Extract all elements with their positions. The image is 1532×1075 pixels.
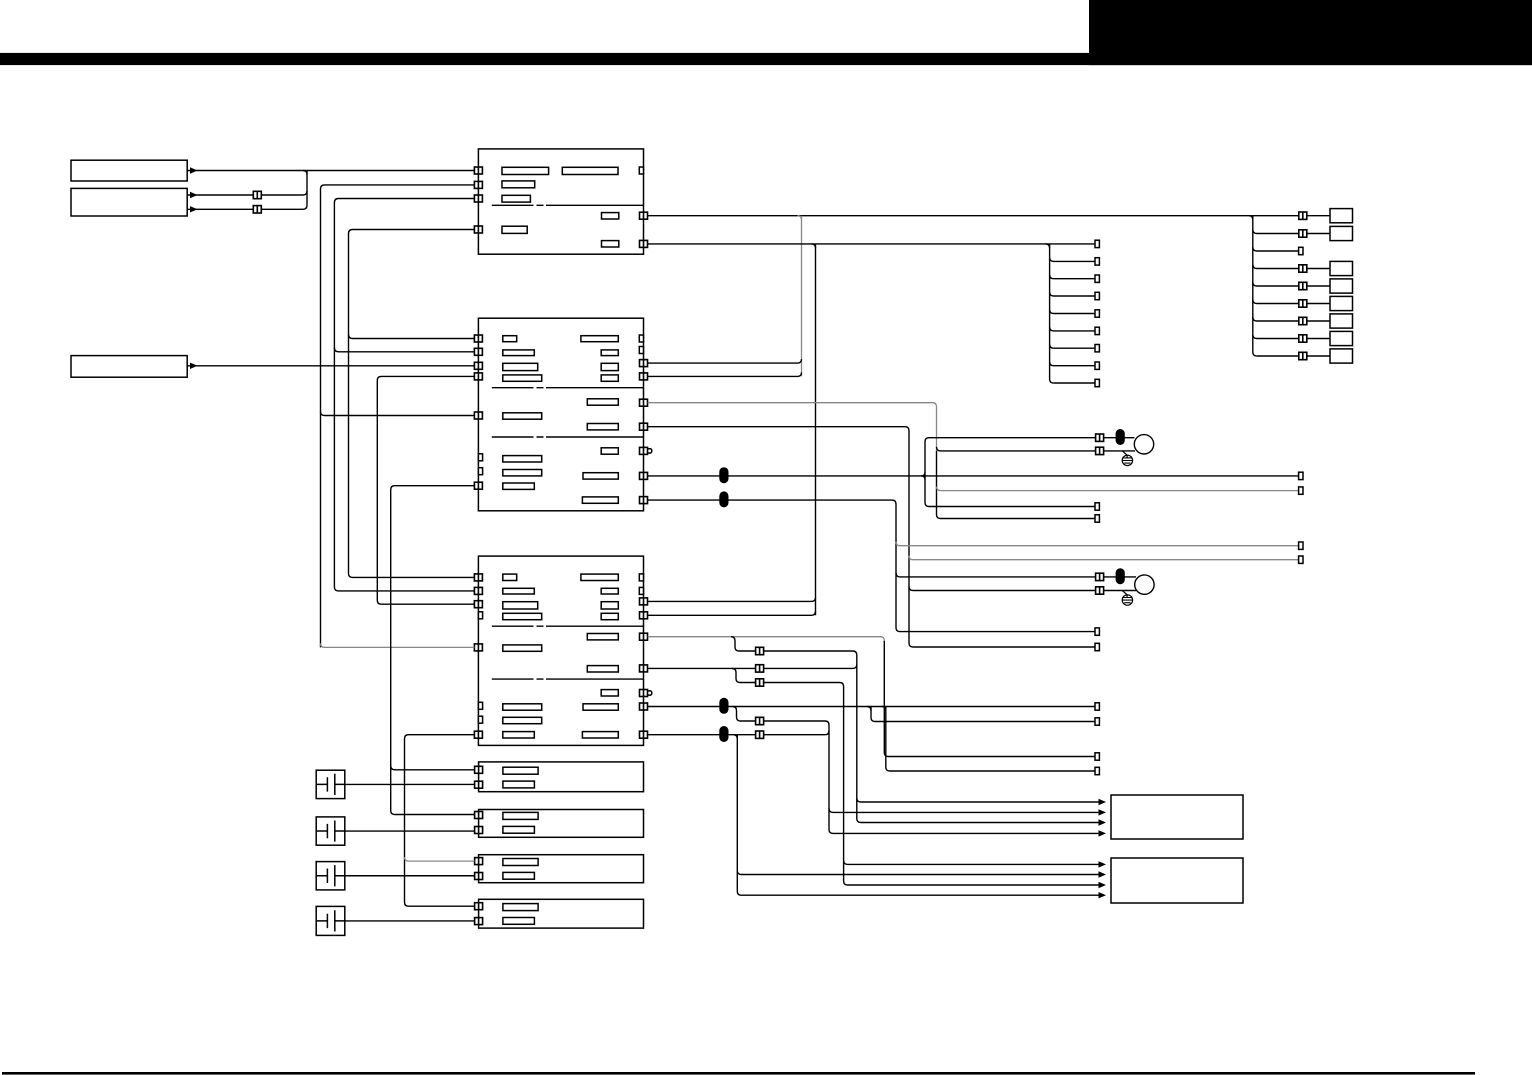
vertical y637 to square: [884, 641, 1095, 757]
block U3 left pin 1: [474, 574, 482, 581]
block U3 label rect i: [587, 634, 618, 640]
CN column branch 1: [1050, 257, 1095, 261]
fan branch 1 connector: [1299, 212, 1307, 219]
block U3 left pin 4: [474, 644, 482, 651]
jack J2 outline: [316, 817, 345, 845]
block U3 divider 2: [492, 678, 644, 680]
wire U2.6r long with bead: [648, 475, 1299, 477]
block U3 right pin 2: [640, 612, 648, 619]
arrow into box R2 line4: [1099, 892, 1107, 898]
bus vertical E (U2.6-M1-M2): [391, 486, 475, 815]
block U2 label rect d: [503, 375, 542, 381]
output box R2: [1111, 858, 1243, 903]
wire U2.4r down: [648, 427, 1095, 647]
box tuner/source 1: [71, 160, 187, 181]
arrow into box R1 line4: [1099, 830, 1107, 836]
module M1 label rect a: [503, 767, 538, 774]
module M3 outline: [479, 855, 644, 883]
wire U2 right pin2 merge: [648, 372, 802, 376]
connector on box2 upper wire: [253, 191, 261, 198]
module M3 pin 2: [475, 873, 483, 880]
terminal square CN row2: [1095, 275, 1099, 282]
fan branch 8 plug box: [1330, 331, 1353, 345]
block U3 label rect e: [581, 574, 618, 580]
block U3 right stub pin b: [639, 587, 643, 594]
wire U3 right pin1 merge: [648, 597, 816, 601]
arrow into box R1 line2: [1099, 809, 1107, 815]
block U3 label rect d: [503, 613, 542, 619]
terminal square CN row6: [1095, 345, 1099, 352]
terminal square y647: [1095, 643, 1099, 650]
block U2 right pin 6: [640, 472, 648, 479]
branch T x737 down: [737, 735, 1098, 896]
CN column branch 6: [1050, 344, 1095, 348]
wire box2 lower to node: [187, 205, 307, 209]
connector y682: [756, 679, 764, 686]
block U3 label rect o: [583, 704, 618, 710]
block U1 internal divider: [492, 204, 644, 206]
block U2 label rect n: [503, 470, 542, 476]
jack J3 outline: [316, 862, 345, 890]
fillet T x871: [867, 707, 871, 711]
block U2 right pin 5: [640, 447, 648, 454]
jack J1 outline: [316, 770, 345, 798]
speaker 2: [1135, 575, 1154, 594]
fan branch 5 plug box: [1330, 279, 1353, 293]
header black band: [0, 53, 1532, 65]
terminal square CN row0: [1095, 240, 1099, 247]
fan branch 4 connector: [1299, 265, 1307, 272]
block U2 label rect i: [587, 399, 618, 405]
block U1 right pin 6: [640, 240, 648, 247]
block U3 left stub pin b: [478, 702, 482, 709]
bus vertical C (U1.4-U2.1-U3.1): [349, 230, 475, 578]
bead on U3.6r: [719, 698, 728, 714]
module M2 pin 1: [475, 812, 483, 819]
block U2 right stub pin a: [639, 335, 643, 342]
fan branch 9 wire: [1257, 355, 1330, 357]
ground 1: [1122, 455, 1132, 465]
terminal square CN row1: [1095, 258, 1099, 265]
fan branch 9 connector: [1299, 352, 1307, 359]
branch to arrow y802: [857, 798, 1099, 802]
module M1 label rect b: [503, 781, 535, 788]
block U3 label rect f: [601, 588, 618, 594]
wire y721 down to R1 arrows: [763, 721, 1098, 833]
node vertical join: [306, 171, 308, 206]
block U1 label rect e: [602, 213, 619, 219]
terminal square right y546: [1299, 542, 1303, 549]
block U1 left pin 2: [474, 181, 482, 188]
gray long wire y546: [896, 542, 1299, 546]
module M4 outline: [479, 899, 644, 928]
block U2 label rect h: [601, 375, 618, 381]
wire box3 to U2 pin3: [187, 365, 474, 367]
bus C branch to U2 pin1: [349, 335, 475, 339]
speaker2 lower wire: [909, 587, 1136, 591]
footer rule: [2, 1072, 1475, 1075]
jack J3 contacts: [316, 865, 345, 886]
block U3 left pin 2: [474, 587, 482, 594]
block U1 label rect g: [602, 241, 619, 247]
branch to arrow y812: [829, 808, 1099, 812]
bead speaker2: [1116, 568, 1125, 584]
module M4 label rect b: [503, 918, 535, 925]
branch jog y707-721 conn: [733, 707, 756, 722]
speaker2 upper wire: [896, 573, 1136, 577]
block U2 right pin 4: [640, 423, 648, 430]
block U2 label rect m: [503, 456, 542, 462]
block U1 left pin 4: [474, 226, 482, 233]
block U2 left pin 1: [474, 335, 482, 342]
fan branch 8 connector: [1299, 335, 1307, 342]
CN column vertical: [1050, 244, 1054, 383]
jack J1 contacts: [316, 774, 345, 795]
terminal square CN row7: [1095, 362, 1099, 369]
fan branch 9 plug box: [1330, 349, 1353, 363]
block U2 label rect j: [503, 413, 542, 419]
fan branch 6 plug box: [1330, 296, 1353, 310]
ground 1 stem: [1122, 451, 1127, 458]
block U2 label rect l: [601, 448, 618, 454]
block U3 divider 1: [492, 625, 644, 627]
block U2 divider 2: [492, 436, 644, 438]
bus F branch to module M3: [405, 857, 475, 861]
block U1 right stub pin: [639, 167, 643, 174]
fan branch 3 terminal square: [1299, 247, 1303, 254]
fan branch 7 plug box: [1330, 314, 1353, 328]
wire jack J1 to module: [345, 783, 475, 785]
block U3 label rect a: [503, 574, 517, 580]
block U3 right pin 7: [640, 731, 648, 738]
fan branch 5 wire: [1253, 282, 1330, 286]
output box R1: [1111, 795, 1243, 839]
wire U3 right pin2 merge: [648, 611, 816, 615]
block U3 label rect h: [601, 613, 618, 619]
block U3 left stub pin c: [478, 716, 482, 723]
block U2 right stub pin b: [639, 347, 643, 354]
block U2 label rect q: [582, 497, 618, 503]
terminal square right y476: [1299, 472, 1303, 479]
fan branch 8 wire: [1253, 335, 1330, 339]
wire box1 to U1 pin1: [187, 170, 474, 172]
bus vertical B (U1.3-U2.2-U3.2): [334, 199, 474, 591]
bus vertical A (U1.2-U2.5-U3.5): [321, 185, 475, 648]
block U3 label rect g: [601, 602, 618, 609]
block U3 label rect k: [587, 666, 618, 672]
fan branch 7 connector: [1299, 317, 1307, 324]
wire jack J4 to module: [345, 920, 475, 922]
module M4 pin 2: [475, 918, 483, 925]
module M4 label rect a: [503, 904, 538, 911]
block U3 label rect c: [503, 602, 538, 609]
wire U1 pin6 long line: [648, 243, 1095, 245]
wire U1 pin5 long line: [648, 215, 1253, 217]
block U2 label rect a: [503, 336, 517, 342]
fan branch 7 wire: [1253, 317, 1330, 321]
module M3 label rect b: [503, 872, 535, 879]
fillet at gray link top: [798, 216, 802, 220]
block U2 label rect b: [503, 350, 535, 356]
arrow into box R2 line3: [1099, 882, 1107, 888]
gray long wire y490: [937, 487, 1299, 491]
block U3 label rect j: [503, 645, 542, 651]
bus A tail to U3 pin5: [321, 643, 475, 647]
block U3 label rect b: [503, 588, 535, 594]
block U3 NC hook: [648, 691, 652, 695]
fillet at CN column top: [1046, 244, 1050, 248]
terminal square CN row3: [1095, 292, 1099, 299]
terminal square CN row8: [1095, 379, 1099, 386]
ground 2 stem: [1122, 591, 1127, 598]
module M3 pin 1: [475, 858, 483, 865]
arrow into box R1 line1: [1099, 799, 1107, 805]
wire y651 to down: [763, 651, 1098, 823]
connector y721: [756, 717, 764, 724]
fillet T x737.3: [733, 735, 737, 739]
block U2 label rect g: [601, 363, 618, 370]
block U3 label rect l: [601, 690, 618, 696]
wire y682 down to R2 arrows: [763, 683, 1098, 886]
block U1 label rect b: [562, 167, 618, 174]
block U3 label rect p: [503, 732, 535, 738]
vertical below speaker1 node: [937, 451, 1096, 519]
wire U3.6r long with bead: [648, 706, 1095, 708]
connector y735: [756, 731, 764, 738]
jack J2 contacts: [316, 820, 345, 841]
module M2 outline: [479, 810, 644, 838]
fan branch 2 connector: [1299, 230, 1307, 237]
block U2 left pin 2: [474, 348, 482, 355]
wire box2 upper to node: [187, 191, 307, 195]
terminal square spk1 a: [1095, 503, 1099, 510]
terminal square CN row5: [1095, 327, 1099, 334]
ground 2: [1122, 595, 1132, 605]
speaker1 lower connector: [1096, 447, 1104, 454]
wire U2.7r down: [648, 500, 1095, 631]
terminal square y756: [1095, 753, 1099, 760]
block U1 label rect a: [502, 167, 549, 174]
branch to arrow y874: [737, 871, 1098, 875]
box tuner/source 2: [71, 188, 187, 216]
arrow into box R2 line1: [1099, 861, 1107, 867]
fan branch 3 wire: [1253, 247, 1299, 251]
wire U3.4r: [648, 664, 857, 668]
block U3 outline: [478, 556, 643, 745]
module M1 outline: [479, 762, 644, 792]
connector y668: [756, 665, 764, 672]
speaker1 upper wire: [929, 437, 1135, 439]
block U2 NC hook: [648, 449, 652, 453]
CN column branch 2: [1050, 275, 1095, 279]
jack J4 outline: [316, 906, 345, 935]
block U2 right pin 3: [640, 399, 648, 406]
branch y707-721 to square: [871, 707, 1095, 722]
block U2 left stub pin a: [478, 454, 482, 461]
arrow out of box 2 (lower): [190, 206, 198, 212]
block U2 label rect e: [581, 336, 618, 342]
terminal square y771: [1095, 767, 1099, 774]
bus vertical D (U2.4-U3.3): [377, 376, 474, 604]
fillet T x885.8: [882, 707, 886, 711]
gray long wire y560: [909, 556, 1299, 560]
block U1 label rect c: [502, 181, 535, 188]
box source 3: [71, 356, 187, 378]
block U2 left pin 4: [474, 373, 482, 380]
module M2 pin 2: [475, 827, 483, 834]
bead on U2.6r: [719, 467, 728, 483]
block U1 left pin 3: [474, 195, 482, 202]
block U1 left pin 1: [474, 167, 482, 174]
block U1 right pin 5: [640, 212, 648, 219]
block U2 left pin 5: [474, 412, 482, 419]
module M3 label rect a: [503, 859, 538, 866]
terminal square right y560: [1299, 556, 1303, 563]
module M1 pin 1: [475, 766, 483, 773]
block U1 label rect f: [502, 226, 527, 233]
speaker1 upper loop vertical: [925, 438, 1095, 507]
speaker1 upper connector: [1096, 434, 1104, 441]
terminal square y632: [1095, 628, 1099, 635]
fan branch 6 connector: [1299, 300, 1307, 307]
bus B branch to U2 pin2: [334, 348, 474, 352]
block U3 right stub pin a: [639, 574, 643, 581]
CN column branch 7: [1050, 362, 1095, 366]
arrow out of box 2 (upper): [190, 192, 198, 198]
terminal square CN row4: [1095, 310, 1099, 317]
bead on U2.7r: [719, 491, 728, 507]
block U2 label rect f: [601, 350, 618, 356]
block U2 label rect p: [503, 483, 535, 489]
block U2 left pin 3: [474, 362, 482, 369]
fan branch 2 wire: [1253, 230, 1330, 234]
bus E branch to module M1: [391, 766, 475, 770]
speaker2 lower connector: [1096, 587, 1104, 594]
fan branch 2 plug box: [1330, 226, 1353, 240]
block U2 outline: [478, 318, 643, 511]
block U3 left stub pin a: [478, 612, 482, 619]
wire U2.3 gray to speaker node: [648, 403, 937, 451]
module M4 pin 1: [475, 903, 483, 910]
block U3 left pin 5: [474, 731, 482, 738]
vertical link gray U1.5 to U2 right: [801, 216, 803, 377]
block U2 right pin 2: [640, 373, 648, 380]
wire jack J3 to module: [345, 875, 475, 877]
block U3 right pin 6: [640, 703, 648, 710]
bus vertical F (U3.last-M3-M4): [405, 735, 475, 907]
block U3 right pin 5: [640, 690, 648, 697]
fillet T x307: [303, 171, 307, 175]
block U1 outline: [478, 149, 643, 254]
fan branch 4 plug box: [1330, 261, 1353, 275]
fillet at U1.6 link top: [812, 244, 816, 248]
block U2 left pin 6: [474, 482, 482, 489]
block U3 label rect n: [503, 717, 542, 723]
fan branch 1 wire: [1253, 215, 1330, 217]
branch jog y637-651: [731, 637, 756, 651]
speaker1 lower wire: [937, 447, 1136, 451]
module M1 pin 2: [475, 781, 483, 788]
branch y707-771 to square: [886, 707, 1095, 772]
fan branch 5 connector: [1299, 282, 1307, 289]
speaker2 upper connector: [1096, 573, 1104, 580]
block U2 label rect c: [503, 363, 538, 370]
CN column branch 8: [1054, 382, 1095, 384]
bead on U3.7r: [719, 726, 728, 742]
vertical link U1.6 to U3 right: [815, 244, 817, 615]
bead speaker1: [1116, 429, 1125, 445]
terminal square spk1 b: [1095, 515, 1099, 522]
block U2 left stub pin b: [478, 468, 482, 475]
block U1 label rect d: [502, 195, 530, 202]
block U3 right pin 4: [640, 665, 648, 672]
block U2 label rect o: [583, 473, 618, 479]
fan branch 6 wire: [1253, 300, 1330, 304]
arrow into box R2 line2: [1099, 871, 1107, 877]
block U3 left pin 3: [474, 601, 482, 608]
CN column branch 5: [1050, 327, 1095, 331]
block U3 right pin 3: [640, 633, 648, 640]
fillet at fan top: [1249, 216, 1253, 220]
fan branch 4 wire: [1253, 265, 1330, 269]
terminal square right y490: [1299, 487, 1303, 494]
connector y651: [756, 647, 764, 654]
module M2 label rect b: [503, 826, 535, 833]
branch to arrow y864: [844, 860, 1099, 864]
arrow out of box 3: [190, 363, 198, 369]
wire U3.3r gray long: [648, 637, 885, 641]
block U2 divider 1: [492, 387, 644, 389]
arrow out of box 1: [190, 167, 198, 173]
block U3 label rect m: [503, 704, 542, 710]
block U3 right pin 1: [640, 598, 648, 605]
wire U2 right pin1 merge: [648, 359, 802, 363]
CN column branch 3: [1050, 292, 1095, 296]
block U2 right pin 1: [640, 360, 648, 367]
terminal square y721: [1095, 718, 1099, 725]
header black title block: [1089, 0, 1532, 65]
terminal square y707: [1095, 703, 1099, 710]
block U2 right pin 7: [640, 497, 648, 504]
junction fillet on speaker1 net: [921, 472, 925, 480]
connector on box2 lower wire: [253, 206, 261, 213]
jack J4 contacts: [316, 910, 345, 931]
CN column branch 4: [1050, 310, 1095, 314]
block U2 label rect k: [587, 424, 618, 430]
bus A branch to U2 pin5: [321, 412, 475, 416]
module M2 label rect a: [503, 812, 538, 819]
block U3 label rect q: [582, 732, 618, 738]
speaker 1: [1134, 435, 1153, 454]
fan vertical: [1253, 216, 1257, 356]
fan branch 1 plug box: [1330, 209, 1353, 223]
arrow into box R1 line3: [1099, 819, 1107, 825]
wire U3.7r with bead and conn: [648, 731, 829, 735]
wire jack J2 to module: [345, 830, 475, 832]
branch jog y668-682: [732, 668, 756, 682]
